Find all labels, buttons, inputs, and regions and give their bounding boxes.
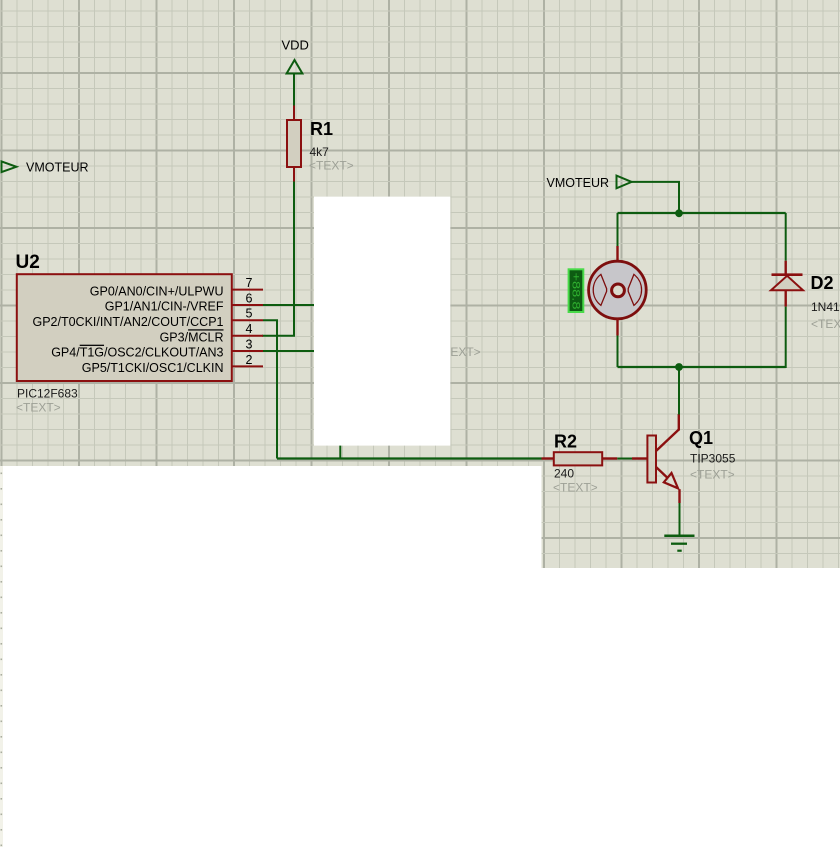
pin 6 stub — [232, 304, 263, 306]
wire top rail to motor — [617, 213, 619, 246]
wire Q1 emitter to ground — [679, 503, 681, 536]
junction bottom — [675, 363, 683, 371]
motor rpm display — [569, 269, 584, 312]
resistor R1 — [287, 119, 354, 173]
wire VDD to R1 — [293, 75, 295, 106]
pin D2 anode — [785, 290, 787, 306]
diode D2 — [771, 273, 840, 331]
wire R1 down to pin4 row — [262, 182, 294, 336]
page edge dot strip — [0, 466, 3, 847]
pin 7 stub — [232, 289, 263, 291]
svg-text:GP4/T1G/OSC2/CLKOUT/AN3: GP4/T1G/OSC2/CLKOUT/AN3 — [51, 346, 223, 360]
wire D2 top — [785, 213, 787, 261]
svg-text:<TEXT>: <TEXT> — [811, 317, 840, 331]
IC U2 PIC12F683 — [16, 252, 232, 415]
svg-text:D2: D2 — [811, 273, 834, 293]
ground — [664, 536, 694, 551]
transistor Q1 — [647, 414, 735, 503]
svg-text:GP1/AN1/CIN-/VREF: GP1/AN1/CIN-/VREF — [105, 300, 224, 314]
junction top — [675, 209, 683, 217]
terminal VMOTEUR right — [547, 176, 632, 190]
pin Q1 base — [632, 457, 647, 459]
wire pin 3 — [263, 350, 314, 352]
wire Q1 collector to bottom rail — [678, 367, 680, 415]
pin motor bottom — [616, 319, 618, 336]
svg-text:4: 4 — [246, 322, 253, 336]
svg-text:6: 6 — [246, 291, 253, 305]
pin R2 left — [542, 457, 555, 459]
pin D2 cathode — [785, 261, 787, 275]
wire motor to bottom rail — [617, 336, 619, 368]
svg-text:GP5/T1CKI/OSC1/CLKIN: GP5/T1CKI/OSC1/CLKIN — [82, 361, 224, 375]
svg-text:3: 3 — [246, 337, 253, 351]
svg-text:U2: U2 — [16, 252, 40, 273]
svg-text:7: 7 — [246, 276, 253, 290]
pin 5 stub — [232, 319, 263, 321]
svg-text:VMOTEUR: VMOTEUR — [547, 176, 610, 190]
power terminal VDD — [282, 38, 309, 74]
wire D2 to bottom rail — [785, 307, 787, 368]
top rail wire — [618, 212, 786, 214]
terminal VMOTEUR left — [2, 161, 89, 175]
white overlay box — [314, 197, 450, 446]
base rail wire — [277, 457, 542, 459]
svg-text:TIP3055: TIP3055 — [690, 452, 736, 466]
wire VMOTEUR right to top rail — [632, 182, 679, 213]
svg-text:PIC12F683: PIC12F683 — [17, 387, 78, 401]
pin R1 top — [293, 106, 295, 121]
svg-text:GP0/AN0/CIN+/ULPWU: GP0/AN0/CIN+/ULPWU — [90, 284, 224, 298]
svg-text:<TEXT>: <TEXT> — [690, 468, 735, 482]
svg-text:1N4148: 1N4148 — [811, 300, 840, 314]
pin 4 stub — [232, 335, 263, 337]
grid background — [0, 0, 840, 568]
svg-text:GP3/MCLR: GP3/MCLR — [160, 330, 224, 344]
svg-text:<TEXT>: <TEXT> — [309, 159, 354, 173]
svg-text:GP2/T0CKI/INT/AN2/COUT/CCP1: GP2/T0CKI/INT/AN2/COUT/CCP1 — [32, 315, 223, 329]
svg-text:<TEXT>: <TEXT> — [553, 481, 598, 495]
svg-text:R2: R2 — [554, 432, 577, 452]
wire stub up to overlay — [339, 446, 341, 459]
pin R2 right — [602, 457, 617, 459]
pin motor top — [616, 246, 618, 262]
pin R1 bottom — [293, 167, 295, 182]
svg-text:VMOTEUR: VMOTEUR — [26, 161, 89, 175]
svg-text:R1: R1 — [310, 119, 333, 139]
wire pin 5 down to bottom rail — [263, 320, 277, 458]
motor — [589, 261, 647, 319]
svg-text:<TEXT>: <TEXT> — [16, 401, 61, 415]
wire pin 6 — [263, 304, 314, 306]
svg-text:VDD: VDD — [282, 38, 309, 53]
svg-text:2: 2 — [246, 353, 253, 367]
bottom rail wire — [618, 366, 786, 368]
svg-text:240: 240 — [554, 467, 574, 481]
pin 3 stub — [232, 350, 263, 352]
wire R2 to Q1 base — [617, 458, 632, 460]
resistor R2 — [553, 432, 602, 495]
svg-text:Q1: Q1 — [689, 428, 713, 448]
svg-text:4k7: 4k7 — [310, 145, 330, 159]
svg-text:+88.8: +88.8 — [570, 273, 582, 310]
svg-text:5: 5 — [246, 307, 253, 321]
pin 2 stub — [232, 365, 263, 367]
